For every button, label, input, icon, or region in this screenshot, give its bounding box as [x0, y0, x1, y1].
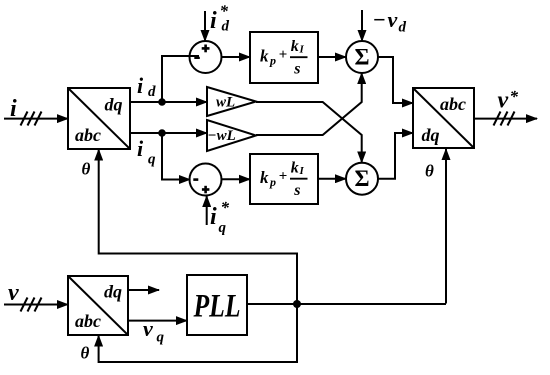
- gain block -wL: [207, 120, 256, 151]
- transform block abc->dq (voltages, PLL): [68, 276, 128, 335]
- svg-text:p: p: [269, 54, 276, 68]
- svg-text:v: v: [8, 280, 19, 306]
- svg-text:θ: θ: [425, 162, 434, 181]
- wire: summer 1 to PI block 1: [221, 56, 250, 58]
- svg-text:k: k: [260, 47, 269, 66]
- svg-text:dq: dq: [105, 95, 123, 115]
- transform block dq->abc (output voltages): [413, 88, 474, 148]
- svg-text:i: i: [210, 8, 217, 34]
- sigma summer q-axis: [346, 163, 378, 195]
- svg-text:k: k: [260, 168, 269, 187]
- svg-text:v: v: [498, 88, 509, 114]
- svg-text:abc: abc: [75, 125, 101, 145]
- svg-text:v: v: [388, 7, 398, 32]
- junction on theta bus: [293, 300, 301, 308]
- label v_q: [143, 316, 165, 346]
- svg-text:PLL: PLL: [193, 289, 241, 325]
- gain block wL: [207, 87, 256, 116]
- svg-text:i: i: [10, 96, 17, 122]
- svg-text:wL: wL: [216, 95, 235, 111]
- svg-text:dq: dq: [422, 125, 440, 145]
- svg-text:abc: abc: [440, 94, 466, 114]
- wire: theta feedback up to current transform block: [99, 150, 297, 305]
- wire: v_q to PLL: [128, 320, 187, 322]
- svg-text:v: v: [143, 316, 153, 341]
- svg-text:d: d: [148, 84, 156, 100]
- junction on i_d: [158, 98, 166, 106]
- wire: input v line with 3-phase slashes: [4, 298, 68, 312]
- svg-text:p: p: [269, 175, 276, 189]
- wire: summer 2 to PI block 2: [221, 178, 250, 180]
- svg-text:i: i: [210, 204, 217, 230]
- svg-text:q: q: [219, 220, 227, 236]
- wire: i_d branch up into summer 1 (minus input): [162, 56, 199, 102]
- junction on i_q: [158, 129, 166, 137]
- svg-text:Σ: Σ: [354, 166, 369, 191]
- svg-text:d: d: [399, 20, 407, 36]
- sigma summer d-axis: [346, 41, 378, 73]
- wire: sigma q output to abc/dq output block (bottom input): [378, 133, 413, 179]
- PI controller block 1: kp + kI/s: [250, 32, 318, 83]
- svg-text:−wL: −wL: [208, 128, 236, 144]
- wire: PI 1 to sigma summer (d axis): [318, 56, 346, 58]
- summing junction 1 (i_d* - i_d): [190, 41, 222, 73]
- svg-text:abc: abc: [75, 311, 101, 331]
- svg-text:q: q: [148, 152, 156, 168]
- label i_q*: [210, 198, 230, 236]
- PI controller block 2: kp + kI/s: [250, 154, 318, 204]
- svg-text:i: i: [137, 73, 144, 98]
- wire: theta feedback down to voltage transform block: [99, 304, 297, 362]
- svg-text:θ: θ: [82, 160, 91, 179]
- svg-text:d: d: [222, 19, 230, 35]
- svg-text:I: I: [299, 44, 305, 56]
- transform block abc->dq (currents): [68, 88, 130, 149]
- svg-text:i: i: [137, 136, 144, 161]
- svg-text:k: k: [291, 160, 299, 177]
- svg-text:θ: θ: [81, 344, 90, 363]
- svg-text:s: s: [293, 60, 300, 77]
- svg-text:Σ: Σ: [354, 45, 369, 70]
- wire: i_q* reference input: [206, 196, 208, 225]
- label i_q: [137, 136, 156, 168]
- wire: input i line with 3-phase slashes: [4, 112, 68, 126]
- svg-text:+: +: [279, 47, 288, 63]
- svg-text:k: k: [291, 38, 299, 55]
- label i_d: [137, 73, 156, 100]
- PLL block: [187, 275, 247, 335]
- wire: i_d* reference input: [204, 11, 206, 41]
- wire: i_d from abc/dq block to wL gain: [130, 101, 207, 103]
- wire: PLL output theta bus to the right: [247, 303, 446, 305]
- label i_d*: [210, 2, 230, 35]
- wire: v_d stub output arrow: [128, 289, 159, 291]
- label v*: [498, 87, 519, 114]
- svg-text:*: *: [221, 198, 230, 217]
- svg-text:I: I: [299, 165, 305, 177]
- label -v_d: [373, 7, 407, 36]
- svg-text:+: +: [279, 169, 288, 185]
- svg-text:s: s: [293, 182, 300, 199]
- summing junction 2 (i_q* - i_q): [190, 164, 222, 196]
- wire: wL output crossing down to sigma q: [256, 102, 362, 163]
- wire: -v_d feedforward input: [361, 10, 363, 41]
- wire: PI 2 to sigma summer (q axis): [318, 178, 346, 180]
- svg-text:*: *: [510, 87, 519, 106]
- svg-text:q: q: [157, 330, 165, 346]
- svg-text:−: −: [373, 7, 386, 32]
- wire: i_q from abc/dq block to -wL gain: [130, 132, 207, 134]
- wire: theta into output transform block: [445, 149, 447, 304]
- wire: sigma d output to abc/dq output block (top input): [378, 57, 413, 103]
- minus sign of summer 1: [194, 57, 200, 59]
- wire: output v* with 3-phase slashes: [474, 112, 537, 126]
- wire: i_q branch down into summer 2 (minus input): [162, 133, 190, 180]
- svg-text:dq: dq: [104, 282, 122, 302]
- wire: -wL output crossing up to sigma d: [256, 73, 362, 135]
